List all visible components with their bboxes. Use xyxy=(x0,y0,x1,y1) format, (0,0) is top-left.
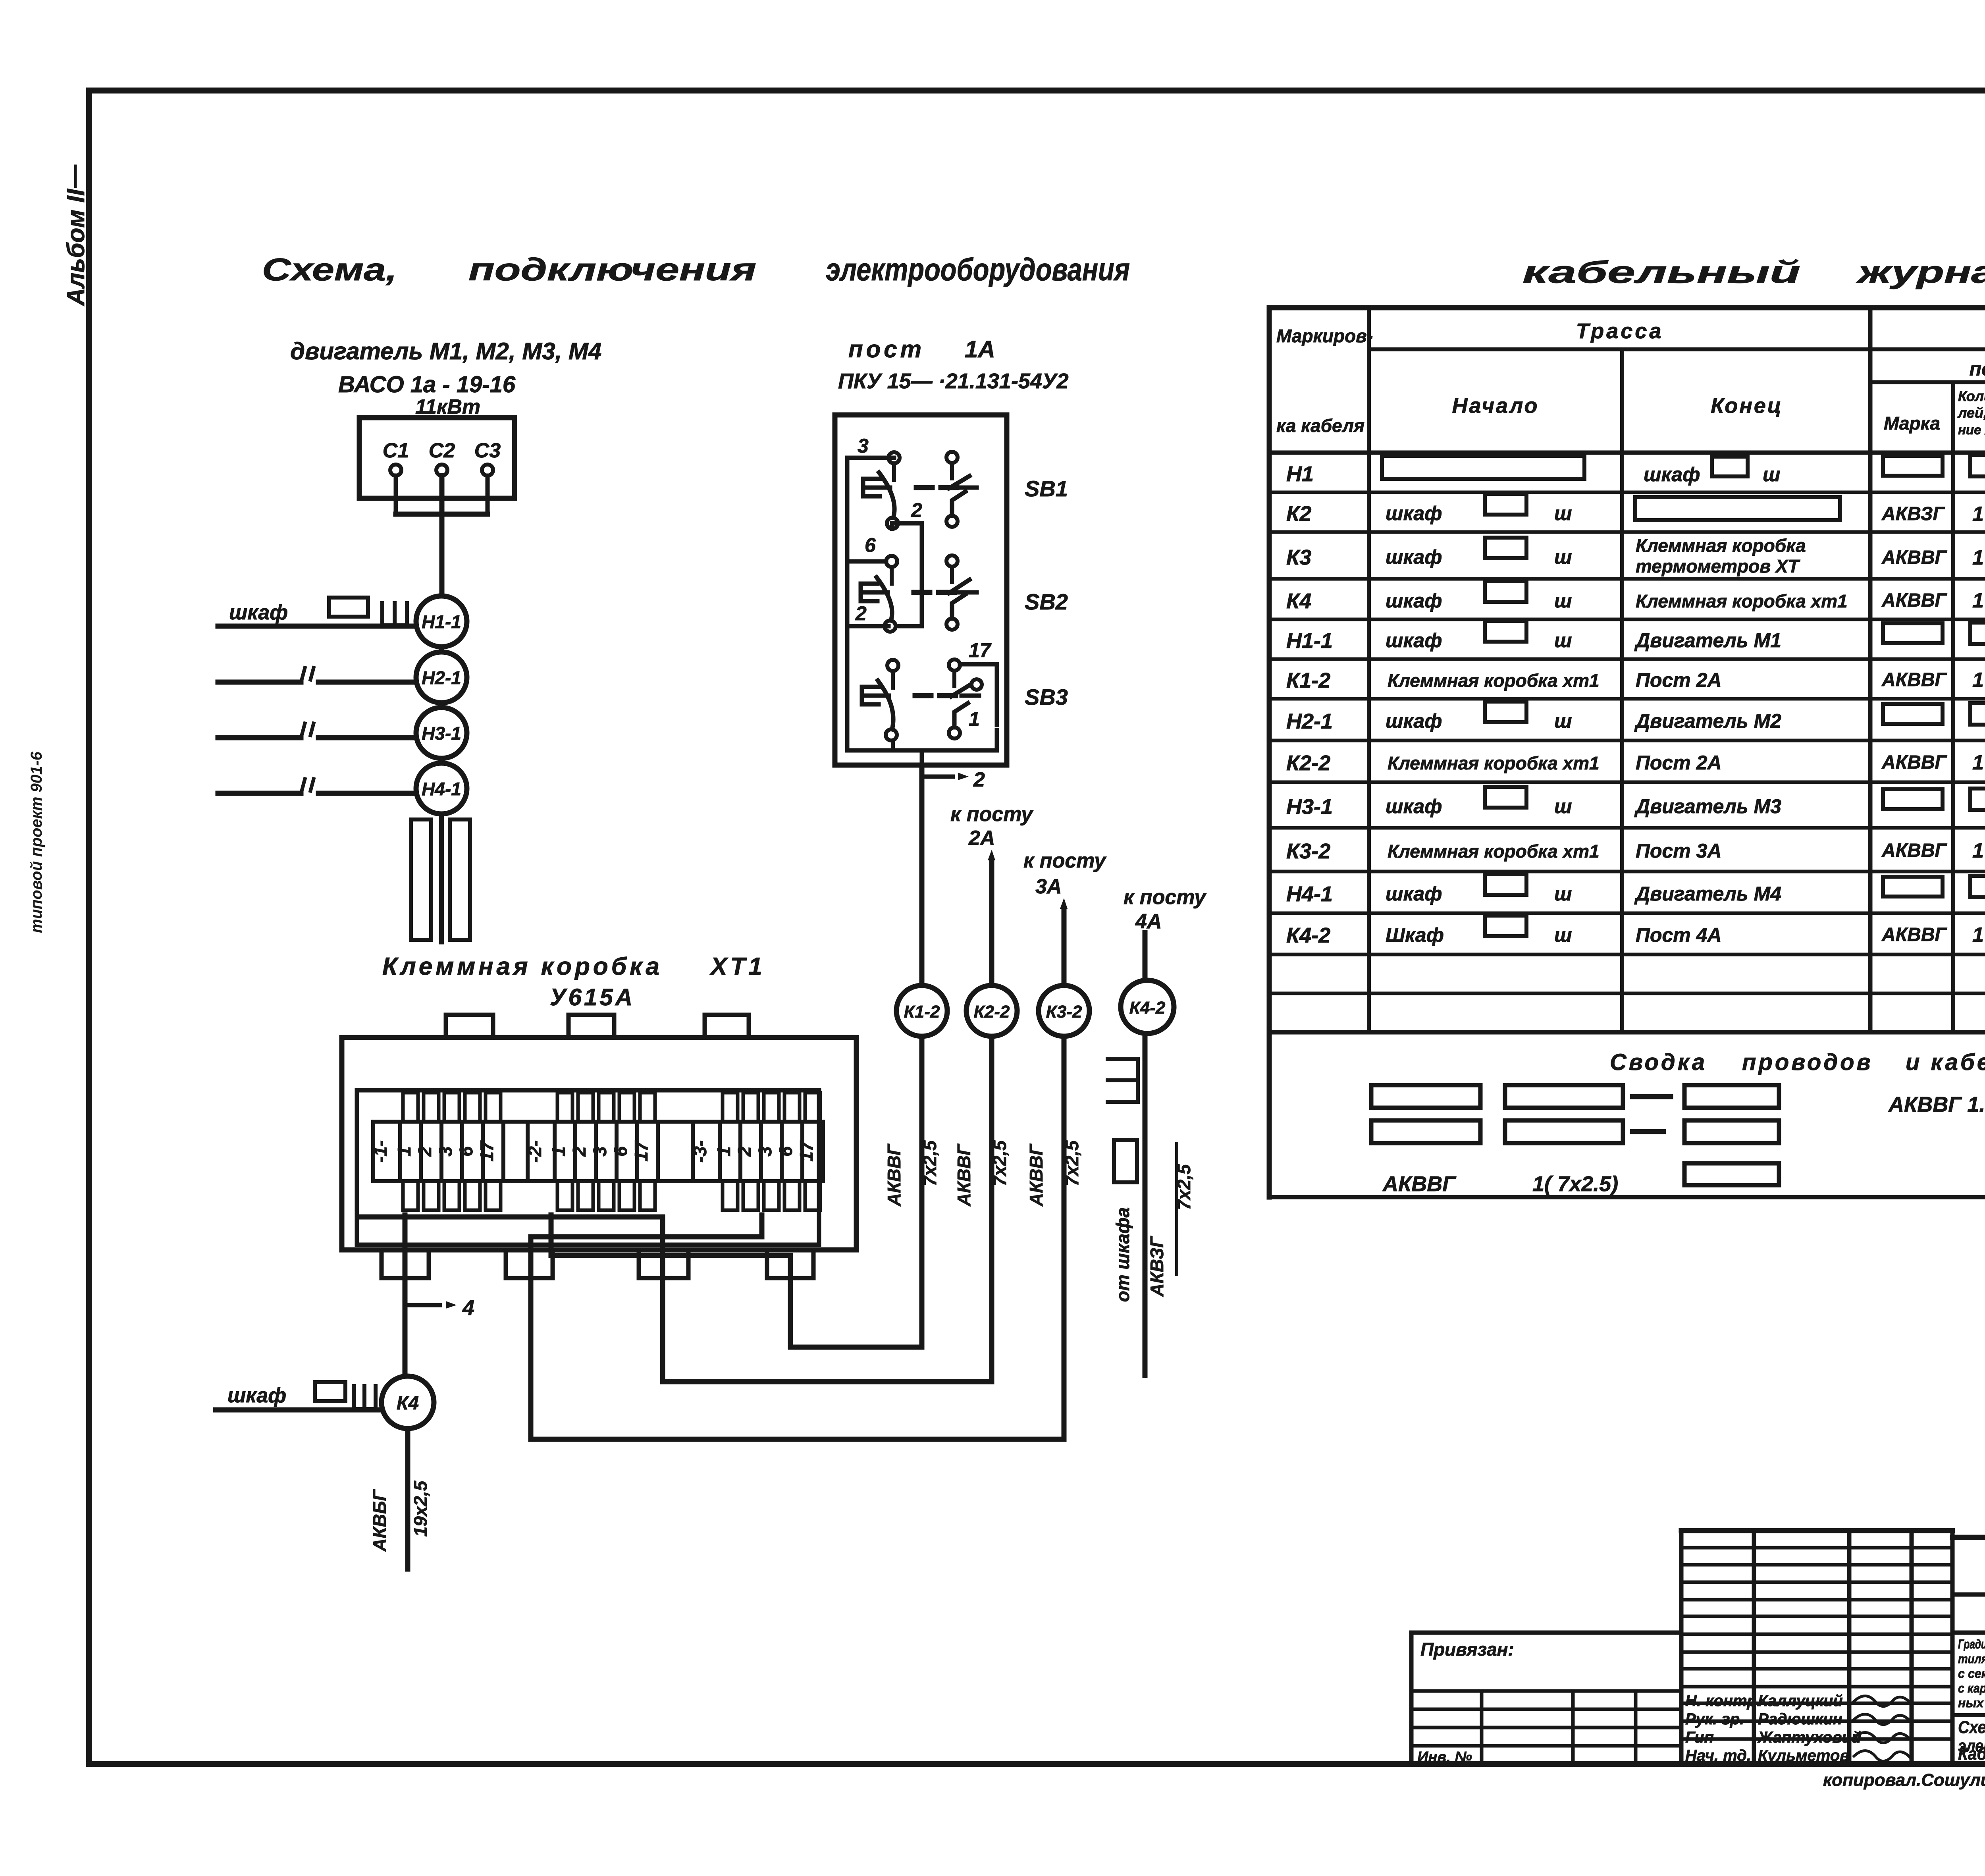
XT1 upper stub 17 xyxy=(486,1093,501,1122)
Ш symbol (К4) xyxy=(354,1386,376,1409)
svg-text:АКВВГ: АКВВГ xyxy=(1881,547,1948,568)
svodka rect r1c3 xyxy=(1684,1085,1779,1108)
svg-text:Шкаф: Шкаф xyxy=(1386,924,1444,946)
svg-text:Альбом II: Альбом II xyxy=(62,188,90,307)
svg-text:1: 1 xyxy=(394,1146,414,1157)
svg-text:ВАСО 1а - 19-16: ВАСО 1а - 19-16 xyxy=(338,372,516,397)
XT1 cell -1- xyxy=(373,1122,400,1181)
table row line xyxy=(1269,530,1985,534)
terminal C1 xyxy=(390,465,401,476)
svg-text:Марка: Марка xyxy=(1884,413,1940,434)
svg-text:Двигатель М3: Двигатель М3 xyxy=(1634,795,1781,817)
wire C1 down xyxy=(394,476,398,514)
svg-text:К3-2: К3-2 xyxy=(1286,839,1330,863)
svg-text:К3: К3 xyxy=(1286,546,1311,569)
svg-text:шкаф: шкаф xyxy=(1386,710,1442,732)
svg-text:ние жил, напряжение: ние жил, напряжение xyxy=(1958,422,1985,437)
svg-text:2: 2 xyxy=(734,1146,755,1157)
svg-text:К4-2: К4-2 xyxy=(1129,998,1166,1018)
svg-text:7х2,5: 7х2,5 xyxy=(989,1140,1010,1186)
XT1 upper stub 2 xyxy=(743,1093,758,1122)
table row line xyxy=(1269,953,1985,956)
wire segment right (row 4) xyxy=(318,791,415,796)
wire segment right (row 2) xyxy=(318,680,415,685)
svg-text:1А: 1А xyxy=(965,336,995,362)
svg-text:Градирня четырехсекционная с в: Градирня четырехсекционная с вен- xyxy=(1958,1637,1985,1651)
cabinet symbol rect (row 1) xyxy=(329,598,368,617)
svg-text:с каркасом из железобетон-: с каркасом из железобетон- xyxy=(1958,1681,1985,1695)
cable marker circle Н3-1 xyxy=(416,708,467,758)
XT1 lower stub 3 xyxy=(764,1181,779,1210)
XT1 lower stub 1 xyxy=(403,1181,418,1210)
underline АКВЗГ xyxy=(1175,1143,1178,1274)
table row line xyxy=(1269,697,1985,701)
svg-text:журнал: журнал xyxy=(1856,255,1985,289)
svg-text:ш: ш xyxy=(1554,590,1572,612)
XT1 lower stub 17 xyxy=(640,1181,655,1210)
svg-text:Трасса: Трасса xyxy=(1576,319,1664,343)
table header bottom xyxy=(1269,451,1985,455)
XT1 cell 6 xyxy=(782,1122,802,1181)
XT1 bottom tab 2 xyxy=(506,1250,553,1278)
XT1 top tab 2 xyxy=(569,1015,614,1037)
svg-text:подключения: подключения xyxy=(468,252,756,287)
svg-text:1 ( 7х2.5): 1 ( 7х2.5) xyxy=(1972,839,1985,862)
XT1 upper stub 6 xyxy=(784,1093,800,1122)
table top edge xyxy=(1269,305,1985,310)
svg-text:С1: С1 xyxy=(383,439,409,462)
cable duct rect left xyxy=(411,819,431,940)
svg-text:Н1-1: Н1-1 xyxy=(1286,629,1333,653)
wire шкаф to Н1-1 xyxy=(218,624,415,629)
svg-text:Пост 3А: Пост 3А xyxy=(1636,840,1722,862)
cable marker circle Н2-1 xyxy=(416,652,467,703)
svg-text:Клеммная коробка: Клеммная коробка xyxy=(382,953,663,980)
svg-text:проводов: проводов xyxy=(1742,1049,1873,1075)
wire exit post box xyxy=(920,750,924,765)
svg-text:Кабельный журнал.: Кабельный журнал. xyxy=(1958,1744,1985,1764)
XT1 lower stub 2 xyxy=(424,1181,439,1210)
wire XT1 to K4 xyxy=(403,1215,408,1376)
svg-text:ПКУ 15— ·21.131-54У2: ПКУ 15— ·21.131-54У2 xyxy=(838,369,1068,393)
svg-text:Н2-1: Н2-1 xyxy=(422,667,461,688)
XT1 lower stub 6 xyxy=(784,1181,800,1210)
svg-text:АКВБГ: АКВБГ xyxy=(369,1489,390,1552)
svg-text:1: 1 xyxy=(713,1146,734,1157)
XT1 cell 1 xyxy=(400,1122,421,1181)
XT1 bottom tab 3 xyxy=(639,1250,688,1278)
post box left bus wire xyxy=(847,458,894,750)
wire шкаф to К4 xyxy=(216,1407,385,1413)
svg-text:тиляторами 3ВГ25 пленочная: тиляторами 3ВГ25 пленочная xyxy=(1958,1652,1985,1666)
cable marker circle К3-2 xyxy=(1039,985,1089,1036)
svg-text:6: 6 xyxy=(456,1146,476,1157)
svg-text:17: 17 xyxy=(796,1140,817,1162)
svg-text:АКВВГ: АКВВГ xyxy=(1881,840,1948,861)
svg-text:Схема подключения: Схема подключения xyxy=(1958,1718,1985,1737)
aux contact SB3 xyxy=(971,679,982,690)
svg-text:Н1-1: Н1-1 xyxy=(422,611,461,632)
svg-text:ш: ш xyxy=(1763,463,1780,486)
svg-text:ка кабеля: ка кабеля xyxy=(1276,415,1364,436)
table row line xyxy=(1269,657,1985,661)
svg-text:к посту: к посту xyxy=(950,803,1034,826)
svg-text:шкаф: шкаф xyxy=(1386,883,1442,905)
table row line xyxy=(1269,781,1985,784)
svg-text:Нач. тд.: Нач. тд. xyxy=(1685,1747,1751,1764)
svg-text:шкаф: шкаф xyxy=(229,601,288,624)
svg-text:Маркиров-: Маркиров- xyxy=(1276,326,1373,346)
push-button SB3 xyxy=(887,660,898,671)
Ш symbol rotated xyxy=(1108,1059,1138,1102)
wire SB1 to SB2 xyxy=(892,523,922,626)
push-button SB1 xyxy=(888,452,900,463)
svg-text:и кабелей: и кабелей xyxy=(1906,1049,1985,1075)
table line under Трасса/Кабель xyxy=(1369,347,1985,351)
XT1 upper stub 6 xyxy=(465,1093,480,1122)
svg-text:3: 3 xyxy=(435,1146,456,1157)
XT1 cell 2 xyxy=(740,1122,761,1181)
signature Кульметов xyxy=(1854,1751,1910,1761)
svg-text:1 ( 7х2.5): 1 ( 7х2.5) xyxy=(1972,751,1985,774)
svg-text:шкаф: шкаф xyxy=(1386,590,1442,612)
svg-text:3: 3 xyxy=(755,1146,775,1157)
svg-text:С2: С2 xyxy=(429,439,455,462)
XT1 cell 17 xyxy=(637,1122,658,1181)
svg-text:3: 3 xyxy=(858,435,869,457)
row Н1 cells xyxy=(1382,456,1584,479)
svg-text:кабельный: кабельный xyxy=(1522,255,1800,289)
table row line xyxy=(1269,870,1985,873)
XT1 spacer cell a xyxy=(503,1122,528,1181)
svg-text:шкаф: шкаф xyxy=(1386,546,1442,568)
svg-text:Гип: Гип xyxy=(1685,1729,1714,1746)
svg-text:АКВЗГ: АКВЗГ xyxy=(1147,1236,1167,1297)
table row line xyxy=(1269,577,1985,581)
svg-text:Н1: Н1 xyxy=(1286,462,1314,486)
terminal C2 xyxy=(436,465,447,476)
privyazan block top xyxy=(1411,1631,1681,1635)
svg-text:6: 6 xyxy=(865,534,876,556)
table left edge xyxy=(1267,308,1272,1197)
table row line xyxy=(1269,739,1985,742)
XT1 upper stub 17 xyxy=(805,1093,820,1122)
svg-text:17: 17 xyxy=(969,639,992,661)
svg-text:двигатель М1, М2, М3, М4: двигатель М1, М2, М3, М4 xyxy=(290,338,601,364)
XT1 lower stub 6 xyxy=(619,1181,634,1210)
svg-text:шкаф: шкаф xyxy=(1644,463,1700,486)
ditto mark (row 4) xyxy=(302,779,314,791)
svg-text:6: 6 xyxy=(775,1146,796,1157)
svg-text:ш: ш xyxy=(1554,883,1572,905)
XT1 lower stub 6 xyxy=(465,1181,480,1210)
svg-text:Двигатель М4: Двигатель М4 xyxy=(1634,883,1781,905)
svg-text:АКВЗГ: АКВЗГ xyxy=(1881,503,1945,524)
XT1 upper stub 1 xyxy=(723,1093,738,1122)
svg-text:Кульметов: Кульметов xyxy=(1758,1747,1849,1764)
svg-text:ш: ш xyxy=(1554,924,1572,946)
svg-text:2: 2 xyxy=(569,1146,590,1157)
svg-text:1 ( 7х2.5): 1 ( 7х2.5) xyxy=(1972,924,1985,947)
wire C2 to H1-1 xyxy=(439,476,445,596)
svodka dash r1 xyxy=(1632,1094,1671,1099)
svg-text:К2-2: К2-2 xyxy=(974,1002,1010,1022)
svodka rect r2c3 xyxy=(1684,1120,1779,1143)
cable K1-2 from post box xyxy=(919,765,925,1347)
XT1 top tab 3 xyxy=(705,1015,749,1037)
svg-text:К2: К2 xyxy=(1286,502,1311,526)
svg-text:1 ( 7х2.5): 1 ( 7х2.5) xyxy=(1972,669,1985,692)
svg-text:SВ2: SВ2 xyxy=(1025,589,1068,614)
XT1 cell 2 xyxy=(421,1122,441,1181)
XT1 upper stub 17 xyxy=(640,1093,655,1122)
svg-text:1( 7х2.5): 1( 7х2.5) xyxy=(1532,1172,1618,1196)
svodka rect r2c1 xyxy=(1371,1120,1480,1143)
svg-text:Клеммная коробка хт1: Клеммная коробка хт1 xyxy=(1388,753,1600,773)
svg-text:Количество кабе-: Количество кабе- xyxy=(1958,388,1985,404)
svodka rect r2c2 xyxy=(1505,1120,1623,1143)
svg-text:К2-2: К2-2 xyxy=(1286,751,1330,775)
table outer bottom xyxy=(1269,1195,1985,1199)
XT1 spacer cell b xyxy=(658,1122,693,1181)
svg-text:Рук. гр.: Рук. гр. xyxy=(1685,1710,1744,1728)
svg-text:ш: ш xyxy=(1554,502,1572,524)
svg-text:-3-: -3- xyxy=(690,1140,710,1163)
XT1 cell -2- xyxy=(528,1122,555,1181)
cable marker circle К4-2 xyxy=(1121,980,1174,1033)
svg-text:электрооборудования: электрооборудования xyxy=(826,252,1130,287)
svodka rect r3c3 xyxy=(1684,1163,1779,1185)
svg-text:2: 2 xyxy=(855,602,867,625)
svg-text:Жаптуховий: Жаптуховий xyxy=(1757,1729,1861,1746)
push-button post 1A box xyxy=(835,415,1007,765)
svg-text:Клеммная коробка хт1: Клеммная коробка хт1 xyxy=(1636,591,1848,611)
svg-text:АКВВГ: АКВВГ xyxy=(1382,1172,1457,1196)
svg-text:лей, числа и сече-: лей, числа и сече- xyxy=(1957,405,1985,421)
svg-text:к посту: к посту xyxy=(1023,849,1107,872)
svg-text:-1-: -1- xyxy=(370,1140,391,1163)
XT1 cell 3 xyxy=(761,1122,782,1181)
table row line xyxy=(1269,618,1985,621)
svg-text:ш: ш xyxy=(1554,546,1572,568)
svg-text:Н2-1: Н2-1 xyxy=(1286,710,1333,733)
svg-text:К1-2: К1-2 xyxy=(1286,669,1330,692)
svg-text:Н4-1: Н4-1 xyxy=(1286,882,1333,906)
svg-text:АКВВГ: АКВВГ xyxy=(1026,1143,1046,1207)
svg-text:У615А: У615А xyxy=(550,984,635,1010)
terminal box XT1 inner frame xyxy=(357,1090,819,1245)
svg-text:-2-: -2- xyxy=(524,1140,545,1163)
svg-text:шкаф: шкаф xyxy=(1386,795,1442,817)
wire bus C1-C3 xyxy=(396,512,488,517)
terminal C3 xyxy=(482,465,493,476)
cable marker circle Н4-1 xyxy=(416,763,467,814)
XT1 cell 3 xyxy=(596,1122,617,1181)
svodka rect r1c1 xyxy=(1371,1085,1480,1108)
svg-text:АКВВГ: АКВВГ xyxy=(1881,669,1948,690)
cabinet symbol rect (К4) xyxy=(315,1382,345,1401)
svg-text:19х2,5: 19х2,5 xyxy=(410,1480,431,1537)
svg-text:Инв. №: Инв. № xyxy=(1417,1749,1472,1766)
table row line xyxy=(1269,912,1985,915)
wire C3 down xyxy=(486,476,490,514)
svg-text:Клеммная коробка: Клеммная коробка xyxy=(1636,535,1806,556)
svg-text:АКВВГ 1.(19х2,5): АКВВГ 1.(19х2,5) xyxy=(1888,1093,1985,1116)
XT1 upper stub 2 xyxy=(424,1093,439,1122)
svg-text:ш: ш xyxy=(1554,629,1572,652)
wire SB3 right bracket xyxy=(960,664,997,725)
XT1 upper stub 1 xyxy=(557,1093,572,1122)
XT1 upper stub 3 xyxy=(764,1093,779,1122)
svg-text:К4-2: К4-2 xyxy=(1286,924,1330,947)
svg-text:1 ( 19х2.5): 1 ( 19х2.5) xyxy=(1972,589,1985,612)
title block grid top xyxy=(1681,1528,1952,1533)
ditto mark (row 3) xyxy=(302,723,314,735)
svg-text:типовой проект 901-6: типовой проект 901-6 xyxy=(28,751,45,933)
svg-text:К1-2: К1-2 xyxy=(904,1002,940,1022)
XT1 bottom tab 4 xyxy=(767,1250,813,1278)
svg-text:4: 4 xyxy=(462,1296,474,1320)
XT1 bottom tab 1 xyxy=(382,1250,429,1278)
svg-text:Клеммная коробка хт1: Клеммная коробка хт1 xyxy=(1388,841,1600,862)
cable marker circle К1-2 xyxy=(896,985,947,1036)
svg-text:1: 1 xyxy=(969,708,980,730)
svg-text:SВ3: SВ3 xyxy=(1025,684,1068,710)
svg-text:Радюшкин: Радюшкин xyxy=(1758,1710,1842,1728)
svg-text:термометров ХТ: термометров ХТ xyxy=(1636,556,1800,576)
XT1 upper stub 1 xyxy=(403,1093,418,1122)
svg-text:1: 1 xyxy=(548,1146,569,1157)
XT1 cell 6 xyxy=(462,1122,483,1181)
XT1 upper stub 3 xyxy=(599,1093,614,1122)
svg-text:копировал.Сошулина: копировал.Сошулина xyxy=(1823,1770,1985,1790)
XT1 lower stub 3 xyxy=(599,1181,614,1210)
svg-text:Н3-1: Н3-1 xyxy=(1286,795,1333,819)
svg-text:К4: К4 xyxy=(1286,589,1311,613)
svg-text:шкаф: шкаф xyxy=(1386,629,1442,652)
XT1 lower stub 1 xyxy=(723,1181,738,1210)
svg-text:Сводка: Сводка xyxy=(1610,1049,1707,1075)
XT1 cell -3- xyxy=(693,1122,720,1181)
svg-text:АКВВГ: АКВВГ xyxy=(1881,752,1948,773)
wire segment left (row 2) xyxy=(218,680,301,685)
svodka dash r2 xyxy=(1632,1129,1663,1134)
svg-text:7х2,5: 7х2,5 xyxy=(1062,1140,1082,1186)
svg-text:1 ( 7х2.5): 1 ( 7х2.5) xyxy=(1972,503,1985,526)
svg-text:Начало: Начало xyxy=(1452,394,1539,418)
table row line xyxy=(1269,826,1985,830)
svg-text:С3: С3 xyxy=(474,439,501,462)
svg-text:шкаф: шкаф xyxy=(227,1384,286,1407)
wire XT1 to cable K3-2 xyxy=(531,1215,1064,1439)
table body bottom xyxy=(1269,1030,1985,1035)
cable duct rect right xyxy=(450,819,470,940)
svg-text:Пост 2А: Пост 2А xyxy=(1636,669,1722,691)
XT1 top tab 1 xyxy=(446,1015,493,1037)
svg-text:17: 17 xyxy=(631,1140,651,1162)
svg-text:Двигатель М2: Двигатель М2 xyxy=(1634,710,1781,732)
cable marker circle Н1-1 xyxy=(416,596,467,647)
wire SB3 to bus xyxy=(891,740,895,750)
svg-text:3: 3 xyxy=(590,1146,610,1157)
XT1 cell 6 xyxy=(617,1122,637,1181)
svg-text:11кВт: 11кВт xyxy=(415,395,480,418)
motor terminal box M1..M4 xyxy=(359,418,515,498)
svg-text:1 ( 7 х2.5): 1 ( 7 х2.5) xyxy=(1972,546,1985,569)
XT1 cell 2 xyxy=(575,1122,596,1181)
XT1 lower stub 17 xyxy=(486,1181,501,1210)
XT1 upper stub 6 xyxy=(619,1093,634,1122)
svg-text:К3-2: К3-2 xyxy=(1046,1002,1082,1022)
svg-text:SВ1: SВ1 xyxy=(1025,476,1068,501)
svg-text:пост: пост xyxy=(848,336,925,362)
XT1 cell 1 xyxy=(555,1122,575,1181)
XT1 cell 1 xyxy=(720,1122,740,1181)
svg-text:2: 2 xyxy=(911,499,922,521)
svg-text:2: 2 xyxy=(414,1146,435,1157)
svg-text:4А: 4А xyxy=(1135,910,1162,933)
signature Жаптуховий xyxy=(1854,1732,1910,1743)
XT1 cell 17 xyxy=(483,1122,503,1181)
XT1 upper stub 2 xyxy=(578,1093,593,1122)
cable marker circle К2-2 xyxy=(966,985,1017,1036)
XT1 lower stub 2 xyxy=(578,1181,593,1210)
title block right top xyxy=(1952,1535,1985,1540)
push-button SB2 xyxy=(886,556,897,567)
table row line xyxy=(1269,491,1985,494)
wire trunk through H circles xyxy=(439,596,444,942)
signature Радюшкин xyxy=(1854,1714,1910,1724)
wire tap arrow 4 xyxy=(405,1303,440,1307)
wire XT1 to cable K1-2 xyxy=(551,1215,922,1347)
svg-text:ш: ш xyxy=(1554,795,1572,817)
XT1 lower stub 17 xyxy=(805,1181,820,1210)
svg-text:ных элементов: ных элементов xyxy=(1958,1696,1985,1710)
svg-text:ш: ш xyxy=(1554,710,1572,732)
svg-text:по проекту: по проекту xyxy=(1970,358,1985,380)
wire segment left (row 4) xyxy=(218,791,301,796)
svg-text:АКВВГ: АКВВГ xyxy=(884,1143,904,1207)
terminal box XT1 outer xyxy=(342,1037,856,1250)
wire segment right (row 3) xyxy=(318,735,415,740)
svg-text:Н3-1: Н3-1 xyxy=(422,723,461,744)
post box bottom bus wire xyxy=(847,730,997,750)
svg-text:2: 2 xyxy=(973,768,985,791)
svg-text:Н. контр.: Н. контр. xyxy=(1685,1692,1761,1710)
wire XT1 to cable K2-2 xyxy=(359,1217,992,1382)
svg-text:Схема,: Схема, xyxy=(262,252,397,287)
title block xyxy=(1679,1531,1684,1764)
XT1 upper stub 3 xyxy=(444,1093,459,1122)
svg-text:АКВВГ: АКВВГ xyxy=(1881,590,1948,611)
cable АКВБГ 19x2,5 below К4 xyxy=(405,1429,410,1569)
table line under по проекту/Проложен xyxy=(1870,380,1985,384)
cable marker circle К4 xyxy=(382,1376,434,1429)
svg-text:к посту: к посту xyxy=(1124,886,1207,909)
svg-text:Пост 4А: Пост 4А xyxy=(1636,924,1722,946)
svg-text:Двигатель М1: Двигатель М1 xyxy=(1634,629,1781,652)
Ш symbol (row 1) xyxy=(382,603,407,625)
table row line xyxy=(1269,992,1985,995)
signature Каллуцкий xyxy=(1854,1696,1910,1706)
svg-text:шкаф: шкаф xyxy=(1386,502,1442,524)
svg-text:7х2,5: 7х2,5 xyxy=(919,1140,940,1186)
svg-text:6: 6 xyxy=(610,1146,631,1157)
XT1 lower stub 2 xyxy=(743,1181,758,1210)
tap arrow 2 xyxy=(922,775,953,779)
svg-text:17: 17 xyxy=(476,1140,497,1162)
XT1 cell 17 xyxy=(802,1122,823,1181)
